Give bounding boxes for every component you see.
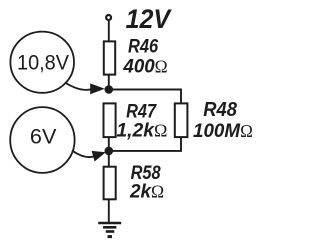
annotation circle 6V xyxy=(10,107,74,173)
svg-text:R48: R48 xyxy=(203,99,237,121)
wire node A to R48 top xyxy=(110,90,181,105)
svg-text:12V: 12V xyxy=(126,4,173,34)
arrow 6V head xyxy=(92,151,106,162)
arrow 10,8V to node A (curve) xyxy=(65,83,92,90)
terminal (12V supply input) xyxy=(106,15,111,20)
svg-text:10,8V: 10,8V xyxy=(17,51,70,75)
svg-text:1,2kΩ: 1,2kΩ xyxy=(116,121,167,142)
ground xyxy=(98,223,121,237)
resistor R46 xyxy=(104,41,115,74)
resistor R48 xyxy=(175,103,188,137)
svg-text:100MΩ: 100MΩ xyxy=(193,120,253,142)
arrow 6V to node B (curve) xyxy=(72,151,94,158)
svg-text:6V: 6V xyxy=(30,124,57,148)
arrow 10,8V head xyxy=(90,83,105,94)
svg-text:R46: R46 xyxy=(128,36,159,58)
node B (junction R47/R58/R48) xyxy=(105,147,114,156)
wire R46 to node A xyxy=(108,75,110,88)
svg-text:2kΩ: 2kΩ xyxy=(129,182,164,203)
wire node B to R58 xyxy=(108,153,110,167)
svg-text:400Ω: 400Ω xyxy=(122,57,167,78)
resistor R47 xyxy=(104,103,116,137)
wire R58 to ground xyxy=(108,200,110,223)
annotation circle 10,8V xyxy=(10,32,74,93)
svg-text:R47: R47 xyxy=(126,101,157,123)
wire node B to R48 bottom xyxy=(110,137,181,151)
node A (junction R46/R47/R48) xyxy=(105,85,114,94)
wire R47 to node B xyxy=(108,138,110,149)
resistor R58 xyxy=(104,167,116,200)
wire terminal to R46 xyxy=(108,21,110,42)
